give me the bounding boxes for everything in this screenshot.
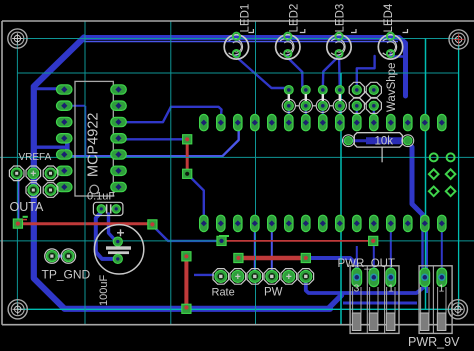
mounting hole bottom-left (8, 300, 27, 319)
svg-text:LED1: LED1 (239, 4, 251, 33)
wire to C2 top pad (109, 214, 118, 241)
via U1 net bottom (183, 169, 192, 178)
svg-text:LED2: LED2 (288, 4, 300, 33)
header WavShpe outlined pads (282, 94, 346, 112)
wire top rail GND (84, 38, 406, 97)
svg-text:10k: 10k (375, 136, 394, 148)
via red bus right (301, 253, 310, 262)
via red bus left (234, 253, 243, 262)
svg-text:TP_GND: TP_GND (42, 268, 91, 282)
svg-text:OUTA: OUTA (10, 200, 44, 214)
grid line vertical x425 bright (425, 39, 427, 310)
op-amp U1 MCP4922 DIP-14 outline (75, 81, 113, 196)
wire row2 to PWR_9V pin2 (441, 228, 443, 271)
wire via to pad row 2 (187, 174, 204, 219)
connector PWR_9V (419, 266, 452, 334)
board outline bottom edge (2, 324, 474, 326)
wire U1 pin5 to header row trace (63, 126, 239, 156)
svg-text:PWR_OUT: PWR_OUT (338, 258, 396, 270)
grid line horizontal y157 (0, 156, 474, 158)
wire red stub below OUTA (23, 219, 27, 221)
wire stub to U1 pin 5 area (34, 145, 66, 148)
svg-text:1: 1 (439, 283, 445, 295)
header J1 pad row 1 (200, 114, 446, 130)
wire row2 to PW column (271, 228, 273, 270)
wire U1 pins 4-5 link bar (65, 139, 70, 156)
wire LED3 to header pad straight (338, 55, 341, 89)
wire into Rate pin1 (194, 274, 214, 276)
via red drop top (182, 252, 191, 261)
svg-text:3: 3 (354, 283, 360, 295)
test point TP_GND pad 2 (61, 249, 75, 263)
grid line horizontal through top holes (17, 38, 458, 40)
jumper JP1 2x2 octagon header (349, 82, 381, 113)
diode LED3 (327, 29, 356, 59)
header OUTA pin 5 (43, 183, 58, 198)
via long net right (369, 236, 378, 245)
wire red long thin net (222, 240, 374, 242)
potentiometer header Rate pins (213, 269, 263, 285)
connector pin guides (352, 287, 354, 313)
U1 right pads pins 8-14 (111, 85, 127, 192)
wire left diagonal from top rail (34, 38, 330, 309)
header VREFA pin 1 (9, 166, 24, 181)
grid line horizontal y241 (0, 240, 474, 242)
wire U1 right pin4 to via (118, 138, 188, 140)
wire red bottom bus (238, 256, 305, 261)
via long net left (217, 236, 226, 245)
via OUTA left (13, 219, 22, 228)
svg-text:MCP4922: MCP4922 (86, 113, 102, 177)
wire stub to U1 pin 1 (34, 87, 62, 90)
wire blue diag from via OUTA (153, 226, 219, 241)
svg-text:100uF: 100uF (98, 275, 110, 306)
wire red vertical to bottom rail (184, 256, 188, 309)
wire red-blue via to Rate column (254, 228, 256, 270)
wire TP_GND link (52, 255, 68, 258)
wire LED3 to header pad diagonal (323, 57, 338, 88)
grid line vertical x85 (84, 21, 86, 325)
via OUTA right (148, 220, 157, 229)
wire PW pin3 to bottom rail (306, 281, 424, 293)
grid line vertical through left holes (16, 39, 18, 310)
svg-text:1: 1 (388, 283, 394, 295)
mounting hole top-right (449, 30, 468, 49)
green stub under row2 pad 2 (219, 235, 229, 237)
svg-text:PWR_9V: PWR_9V (408, 335, 460, 349)
grid line vertical x171 (170, 21, 172, 325)
wire thin rail under top rail (84, 41, 398, 43)
header J2 pad row 2 (200, 215, 446, 231)
mounting hole top-left (8, 29, 27, 48)
board outline left edge (1, 21, 3, 325)
unplated pad grid right (429, 153, 456, 196)
header row LED feed pads (284, 86, 344, 95)
wire under R1 10k (342, 139, 368, 142)
potentiometer header PW pins (264, 269, 314, 285)
wire C3 to C2 bottom pad (96, 212, 113, 259)
header VREFA pin 2 (26, 166, 41, 181)
svg-text:LED3: LED3 (335, 4, 347, 33)
svg-text:PW: PW (264, 287, 283, 299)
wire row2 pad down to PWR_9V pin1 (double a) (421, 228, 423, 281)
wire LED4 to down trunk (391, 54, 404, 57)
capacitor C3 0.1uF (93, 202, 123, 215)
header VREFA pin 3 (43, 166, 58, 181)
svg-text:WavShpe: WavShpe (386, 63, 398, 112)
wire U1 right pin3 to header (118, 107, 222, 122)
via bottom rail (182, 304, 191, 313)
wire via to PWR_OUT pin2 (373, 243, 375, 271)
diode LED4 (378, 29, 407, 59)
wire row2 to PWR_OUT pin3 (390, 228, 392, 271)
test point TP_GND pad 1 (45, 249, 59, 263)
wire second bottom rail (343, 302, 417, 305)
via U1 net top (183, 135, 192, 144)
wire VREFA pin1 down to via (18, 176, 20, 221)
wire LED2 to header pad (288, 55, 306, 90)
wire PWR_OUT pin1 up (356, 246, 358, 271)
header OUTA pin 4 (26, 183, 41, 198)
wire WavShpe pin to LED4 (357, 56, 375, 89)
grid line vertical through right holes (458, 39, 460, 310)
wire header stubs to row1 (288, 106, 290, 122)
svg-text:Rate: Rate (212, 287, 235, 299)
board outline top edge (2, 20, 474, 22)
wire red vertical U1 side (186, 139, 189, 173)
svg-text:VREFA: VREFA (19, 152, 52, 163)
resistor R1 10k (343, 133, 414, 163)
mounting hole bottom-right (448, 300, 467, 319)
svg-text:LED4: LED4 (383, 3, 395, 32)
wire green stub below OUTA (23, 216, 28, 218)
grid line vertical x341 bright (340, 73, 342, 325)
wire trunk right of R1 down to row2 (412, 147, 423, 219)
wire LED1 to header pad (236, 55, 288, 90)
grid line vertical x255 (255, 21, 257, 325)
wire U1 pin2 stub (63, 105, 85, 107)
wire row2 pad down to PWR_9V pin1 (double b) (426, 228, 428, 293)
grid line horizontal y73 (17, 72, 458, 74)
capacitor C2 100uF electrolytic (94, 225, 143, 274)
wire rail to 9V diagonal (328, 295, 342, 309)
connector PWR_OUT (350, 266, 399, 334)
wire red bus end to PWR_OUT pin (306, 258, 357, 272)
wire inside U1 vertical (84, 106, 86, 158)
grid line horizontal through bottom holes (17, 308, 458, 310)
diode LED2 (276, 29, 305, 59)
wire red OUTA net (18, 222, 152, 225)
svg-text:0.1uF: 0.1uF (87, 191, 115, 203)
U1 left pads pins 1-7 (57, 85, 73, 192)
diode LED1 (224, 29, 253, 59)
